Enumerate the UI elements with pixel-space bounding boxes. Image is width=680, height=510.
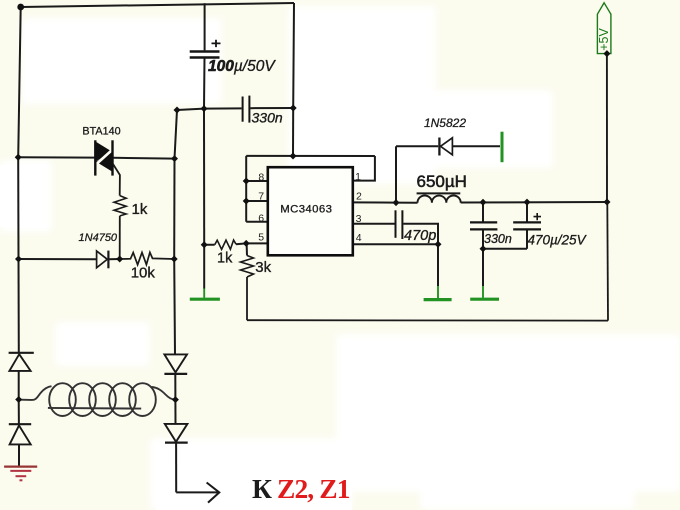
svg-text:10k: 10k (131, 265, 156, 282)
wire column x204 down (203, 109, 205, 245)
node coil left (15, 396, 22, 403)
wire pin2 to inductor (396, 202, 418, 204)
wire left rail to second diode (18, 400, 20, 425)
wire 3k bottom lead (246, 277, 248, 320)
wire left pin bus (245, 156, 247, 222)
capacitor C1 100u/50V (190, 40, 277, 75)
capacitor C2 330n (top) (243, 96, 283, 126)
wire pin1 drop (353, 156, 375, 181)
wire 470u bottom stem (526, 229, 528, 248)
wire pin8 stub (246, 180, 268, 182)
node rail2 10k (171, 256, 178, 263)
resistor R1 1k (gate) (114, 196, 148, 259)
wire left rail lower (18, 259, 20, 353)
node pin4 470p ground (435, 241, 442, 248)
node 330n right rail (290, 105, 297, 112)
svg-text:К Z2, Z1: К Z2, Z1 (252, 473, 350, 504)
net tap +5V bar (green) (501, 132, 504, 163)
wire pin5 stub (246, 242, 268, 244)
node C1/330n junction (201, 105, 208, 112)
node pin2 inductor (393, 199, 400, 206)
node top-left corner (15, 4, 611, 404)
wire left rail middle (17, 157, 19, 259)
wire pin6 stub (246, 221, 268, 223)
node R3 left ground (201, 241, 208, 248)
svg-text:7: 7 (258, 190, 264, 202)
wire D5 right lead (452, 145, 500, 147)
ground right (green) (470, 286, 499, 299)
wire left stem to ground (18, 444, 20, 466)
ground bottom-left (red) (4, 467, 37, 481)
inductor L1 (mains coil) (20, 383, 175, 416)
wire rail2 lower (173, 259, 176, 354)
capacitor C4 330n (bottom) (470, 222, 512, 245)
capacitor C3 470p (396, 210, 437, 244)
svg-text:650µH: 650µH (417, 172, 467, 191)
wire ground stem right (482, 249, 484, 286)
IC U1 MC34063 (258, 167, 362, 255)
node 470u top (524, 199, 531, 206)
wire 330n row left (177, 108, 242, 110)
wire +5V drop (606, 54, 608, 202)
power +5V symbol (597, 3, 611, 54)
diode D5 1N5822 (424, 116, 466, 156)
wire 330n row right (250, 107, 293, 109)
resistor R4 3k (241, 256, 272, 278)
ground left (green) (190, 289, 220, 300)
wire x293 drop to IC top (292, 108, 294, 156)
wire ground stem mid (437, 244, 439, 286)
node pin7 bus (243, 198, 250, 205)
capacitor C5 470u/25V (513, 213, 587, 248)
svg-text:470µ/25V: 470µ/25V (528, 233, 588, 248)
diode D4 (right upper) (164, 354, 187, 374)
wire right rail from top (292, 3, 295, 108)
svg-text:8: 8 (258, 171, 264, 183)
svg-text:1k: 1k (132, 201, 148, 218)
svg-text:BTA140: BTA140 (82, 125, 120, 137)
node left rail zener (15, 256, 22, 263)
node pin5 (243, 240, 250, 247)
node 330n2 bottom (480, 245, 487, 252)
svg-text:1N4750: 1N4750 (79, 232, 118, 244)
node pin8 bus (243, 178, 250, 185)
wire pin7 stub (246, 200, 268, 202)
wire left rail diode gap (18, 371, 20, 400)
wire pin2 stub (353, 201, 396, 203)
wire top horizontal (21, 3, 294, 7)
wire pin4 stub (353, 243, 438, 245)
wire rail2 middle (173, 159, 175, 259)
wire 330n2 top stem (482, 202, 484, 221)
node 330n2 top (480, 199, 487, 206)
wire inductor to +5V rail (461, 201, 607, 204)
zener D1 1N4750 (19, 232, 120, 268)
svg-text:1N5822: 1N5822 (424, 116, 466, 130)
svg-text:330n: 330n (252, 109, 283, 125)
wire pin3 stub (353, 223, 395, 225)
wire D5 left lead (396, 145, 438, 147)
svg-text:+5V: +5V (597, 28, 611, 51)
node coil right (172, 396, 179, 403)
wire IC top bus (246, 155, 375, 157)
svg-text:470p: 470p (404, 228, 436, 244)
wire rail2 upper (175, 110, 178, 159)
diode D2 (left upper) (9, 353, 34, 371)
wire up to diode D5 (395, 146, 397, 202)
wire pin5 to R 1k (204, 244, 215, 246)
wire rail2 diode gap (174, 374, 176, 400)
resistor R2 10k (120, 252, 175, 281)
svg-text:1k: 1k (217, 251, 233, 267)
node rail2 triac (171, 155, 178, 162)
wire R 1k to pin5 (236, 242, 246, 245)
node +5V base (603, 50, 610, 57)
diode D6 (right lower) (165, 424, 188, 443)
wire cap commons link (483, 248, 527, 250)
wire C1 top lead (204, 3, 206, 50)
resistor R3 1k (pin5) (215, 240, 236, 267)
wire rail2 to second diode (174, 400, 176, 424)
wire left rail upper (18, 7, 21, 157)
node left rail triac (15, 154, 22, 161)
ground mid (green) (424, 286, 452, 300)
wire feedback bottom (247, 319, 608, 321)
wire 470p to pin4 node (403, 224, 438, 244)
node output rail (604, 199, 611, 206)
svg-text:3k: 3k (255, 259, 271, 276)
svg-text:4: 4 (356, 232, 362, 244)
wire C1 bottom lead (203, 58, 206, 108)
inductor L2 650uH (417, 172, 467, 203)
wire ground stem left (203, 245, 205, 289)
svg-text:330n: 330n (484, 232, 512, 246)
wire feedback right riser (606, 202, 609, 321)
svg-text:3: 3 (356, 213, 362, 225)
triac Q1 BTA140 (18, 125, 174, 195)
svg-text:MC34063: MC34063 (280, 204, 332, 216)
wire down to arrow (175, 443, 177, 493)
wire 3k top lead (246, 243, 248, 255)
wire 470u top stem (526, 202, 528, 221)
svg-text:6: 6 (258, 213, 264, 225)
node IC top bus (290, 153, 297, 160)
wire arrow horizontal (176, 491, 219, 493)
svg-text:2: 2 (356, 191, 362, 203)
wire 330n2 bottom stem (482, 229, 484, 248)
svg-text:5: 5 (258, 232, 264, 244)
diode D3 (left lower) (9, 424, 31, 444)
svg-text:100µ/50V: 100µ/50V (208, 58, 276, 75)
node zener 10k junction (116, 256, 123, 263)
node rail2 top corner (174, 107, 181, 114)
arrow to Z2,Z1 (207, 483, 220, 503)
svg-text:1: 1 (355, 171, 361, 183)
